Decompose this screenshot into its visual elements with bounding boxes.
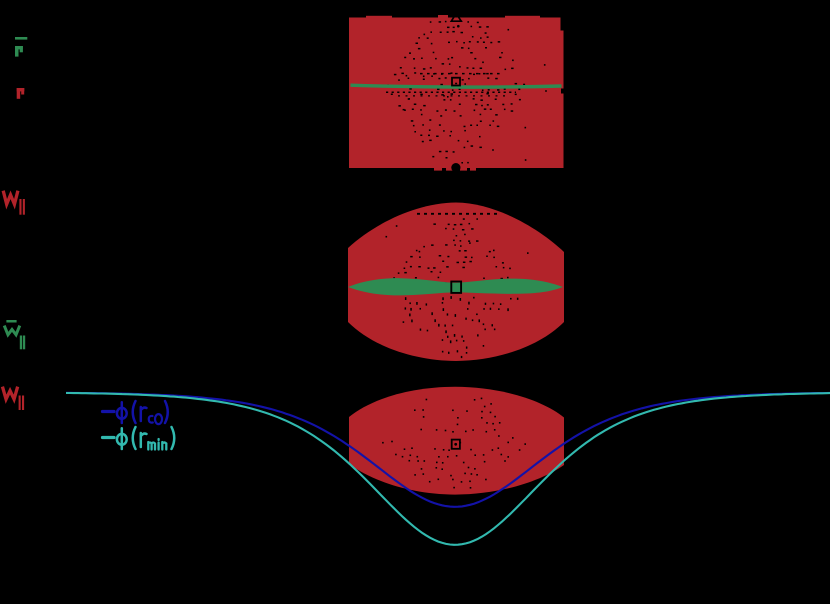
top red scatter block [349,18,564,169]
label r (red) [17,88,25,99]
middle red lens block [348,203,564,362]
legend -phi(r_min) cyan [103,427,147,449]
top open square marker [452,78,460,86]
dashed rows near green line [420,73,502,75]
top open triangle marker [451,13,461,21]
green r-bar line (top) [351,85,562,87]
middle block dot texture [463,218,465,220]
middle open square marker [451,282,461,293]
blue curve -phi(r_c0) [66,393,830,507]
bottom open square marker [452,440,460,449]
label r-bar (green) [15,37,27,57]
bottom block dot texture [426,399,428,401]
cyan curve -phi(r_min) [66,393,830,545]
dashed arc near top of middle block [417,213,500,215]
legend -phi(r_c0) blue [103,401,147,423]
label w-parallel (red, bottom panel) [3,388,17,399]
green w-bar band (middle) [348,278,563,295]
filled circle marker bottom of top block [451,163,460,172]
label w-parallel (red, middle panel) [4,192,18,204]
label w-bar-parallel (green) [6,320,16,323]
top block dot texture [430,21,432,23]
bottom red lens block [349,387,564,495]
